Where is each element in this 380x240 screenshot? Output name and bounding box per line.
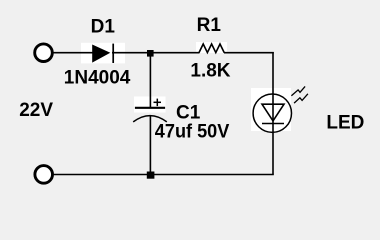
wire capacitor top lead xyxy=(149,53,151,108)
svg-text:22V: 22V xyxy=(19,100,53,121)
wire top: diode to resistor xyxy=(112,52,200,54)
light arrow 2 xyxy=(294,94,308,103)
wire right vertical through LED xyxy=(272,52,274,175)
svg-text:C1: C1 xyxy=(176,102,201,123)
node junction top xyxy=(147,50,154,57)
svg-text:1N4004: 1N4004 xyxy=(64,67,131,88)
resistor R1 white plate xyxy=(196,42,227,53)
LED white plate xyxy=(251,88,291,131)
svg-text:1.8K: 1.8K xyxy=(190,61,230,82)
capacitor C1 symbol xyxy=(133,99,167,122)
node junction bottom xyxy=(147,172,155,179)
wire capacitor bottom lead xyxy=(149,116,151,175)
wire bottom xyxy=(52,174,274,176)
resistor R1 symbol xyxy=(199,44,224,53)
svg-text:47uf 50V: 47uf 50V xyxy=(155,122,230,143)
terminal input bottom xyxy=(35,166,53,184)
capacitor C1 white plate xyxy=(134,97,166,113)
LED symbol xyxy=(253,86,308,132)
diode D1 symbol xyxy=(92,44,113,63)
terminal input top xyxy=(35,44,53,62)
light arrow 1 xyxy=(291,86,305,95)
svg-text:R1: R1 xyxy=(197,15,222,36)
diode D1 white plate xyxy=(81,43,125,64)
wire top: terminal to diode xyxy=(52,52,93,54)
svg-text:LED: LED xyxy=(326,112,364,133)
wire top: resistor to right corner xyxy=(224,52,274,54)
svg-text:D1: D1 xyxy=(91,17,116,38)
